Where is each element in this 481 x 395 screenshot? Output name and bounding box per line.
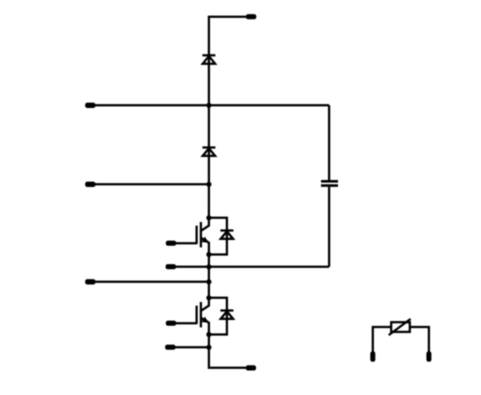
wire capacitor branch vertical [328, 105, 330, 180]
wire Q1 freewheel diode branch [209, 218, 227, 255]
node Q2 collector [206, 295, 211, 300]
wire Q2 collector stub [201, 298, 209, 311]
terminal T11 (RV1 right) [426, 351, 431, 362]
terminal T2 (left, bus 1) [85, 103, 95, 108]
terminal T7 (Q2 gate) [166, 321, 176, 326]
diode D3 (Q1 freewheel) [220, 231, 233, 239]
Q2 emitter arrow [202, 317, 209, 323]
node Q2 emitter [206, 332, 211, 337]
node junction aux/main [206, 345, 211, 350]
wire horizontal emitter aux [170, 346, 209, 348]
node junction midbus/main [206, 264, 211, 269]
terminal T3 (left, bus 2) [85, 182, 95, 187]
Q1 body bar [200, 222, 202, 247]
node Q1 collector [206, 215, 211, 220]
wire Q2 gate lead [176, 322, 197, 324]
terminal T9 (bottom) [246, 365, 256, 370]
node Q1 emitter [206, 252, 211, 257]
diode D4 (Q2 freewheel) [220, 311, 233, 319]
Q2 gate bar [195, 306, 197, 325]
wire horizontal bus 2 [89, 183, 209, 185]
terminal T5 (mid bus) [166, 264, 176, 269]
wire main vertical D2 to Q1 collector [208, 184, 210, 218]
wire horizontal bus 3 [89, 281, 209, 283]
wire RV1 left lead [373, 327, 391, 352]
wire RV1 right lead [410, 327, 429, 352]
terminal T1 (top) [246, 14, 256, 19]
terminal T6 (left, bus 3) [85, 279, 95, 284]
RV1 diagonal stroke [389, 319, 411, 335]
wire Q1 emitter [201, 238, 209, 254]
node junction bus2/main [206, 182, 211, 187]
wire top horizontal to T1 [209, 16, 247, 18]
Q1 gate bar [195, 226, 197, 245]
terminal T8 (emitter aux) [165, 345, 175, 350]
wire Q1 collector stub [201, 218, 209, 231]
diode D2 [202, 148, 215, 156]
wire main vertical Q1 to Q2 [208, 255, 210, 298]
node junction bus1/main [206, 103, 211, 108]
node junction bus3/main [206, 279, 211, 284]
wire horizontal bus 1 [89, 104, 329, 106]
wire main vertical D1 to D2 [208, 105, 210, 184]
Q1 emitter arrow [202, 237, 209, 243]
varistor RV1 [370, 319, 431, 362]
wire main vertical Q2 to bottom [209, 335, 247, 368]
terminal T4 (Q1 gate) [166, 241, 176, 246]
transistor Q2 (IGBT) [166, 295, 212, 337]
wire horizontal mid bus to capacitor branch [170, 266, 329, 268]
Q2 body bar [200, 302, 202, 327]
RV1 body [391, 322, 410, 332]
terminal T10 (RV1 left) [370, 351, 375, 362]
wire capacitor to mid bus [328, 187, 330, 267]
diode D1 [202, 55, 215, 63]
wire Q1 gate lead [176, 242, 197, 244]
wire Q2 emitter [201, 318, 209, 334]
wire main vertical top to D1 [208, 16, 210, 106]
wire Q2 freewheel diode branch [209, 298, 227, 335]
capacitor C1 [321, 181, 338, 185]
transistor Q1 (IGBT) [166, 215, 212, 257]
